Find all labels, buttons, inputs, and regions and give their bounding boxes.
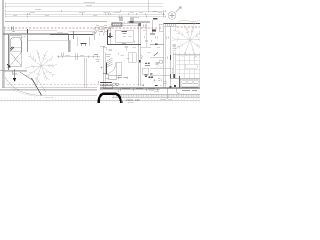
pipe hook x176.5 (177, 89, 180, 94)
rooflight text block (122, 32, 128, 34)
counter line y68.5 (150, 68, 171, 70)
couch cushions (182, 80, 187, 83)
interior wall pair x138.5-141 (138, 26, 140, 86)
scattered plus ticks (106, 36, 152, 54)
void X box diagonal 1 (10, 52, 22, 66)
garden curve main (5, 77, 98, 96)
diagonal door leaf (154, 53, 159, 57)
entry cluster extra marks (94, 27, 112, 33)
boundary blob (130, 21, 134, 23)
dark stub on x27.5 (27, 29, 29, 34)
right rooms: vertical x152.5 (152, 20, 154, 33)
dark wall left of couch (179, 76, 181, 88)
ramp down arrow stem (14, 69, 16, 78)
void box bottom line (10, 65, 22, 67)
counter diag hatch (156, 66, 163, 68)
dimension line row 5 (6, 16, 166, 18)
heavy black arc (99, 94, 122, 104)
lightwell wall pair x84.5/86 (84, 58, 86, 88)
porch plus marks (99, 81, 113, 88)
porch circles (113, 83, 116, 86)
door blob (155, 43, 157, 45)
stair hall: wall pair x103/105 (102, 46, 104, 88)
parking stall outline (10, 36, 22, 66)
entry wall vertical x95 (94, 31, 96, 40)
dim line lower right y89.5 (100, 89, 160, 91)
line y31 mid (69, 30, 96, 32)
bath dark marks (144, 75, 147, 77)
road line y90.7 (0, 90, 97, 92)
site boundary dark line y87.8 (100, 87, 200, 89)
horizontal line y40 (28, 39, 69, 41)
bottom text squiggles (126, 91, 197, 103)
dim tick below garage front (12, 71, 14, 74)
garage dark wall line (3, 33, 69, 35)
shelf line y57.5 (150, 57, 164, 59)
steps dim text (118, 77, 128, 79)
wc marks (156, 63, 160, 65)
pink dashed setback line top (4, 27, 200, 28)
survey circle symbol (168, 7, 181, 19)
boundary dark line y21.5 (5, 21, 107, 23)
left boundary vertical line (2, 0, 4, 88)
wall x170.5 with dark segments (170, 26, 172, 88)
dimension text squiggles (13, 2, 162, 18)
bath fixture tiny dark rects (148, 76, 150, 78)
top wall window rect 1 (112, 23, 122, 26)
small label dark (153, 18, 158, 20)
top wall ticks above (124, 21, 130, 23)
fence posts (114, 94, 199, 97)
pink small marks right (160, 84, 166, 86)
void X box diagonal 2 (10, 52, 22, 66)
small arc bracket (141, 55, 142, 58)
car body (11, 38, 21, 52)
stair dark bottom corner (103, 73, 107, 75)
terrace wall lines (173, 52, 175, 78)
terrace top edge (173, 53, 200, 55)
garage horizontal line (3, 30, 57, 32)
entry squiggle text (92, 31, 103, 34)
road line y100.7 full (0, 100, 200, 102)
lower wall y75 right (150, 74, 171, 76)
shaft room rect (77, 37, 89, 47)
car windshield line (11, 47, 21, 51)
dim text above garage wall (57, 32, 63, 34)
top boundary wall dark right (177, 23, 200, 25)
porch dark bars (100, 82, 112, 84)
scattered room dimension labels (104, 31, 161, 59)
main room inner rooflight rect (115, 30, 133, 42)
garage left wall vertical (8, 34, 10, 70)
entry dark vertical x107.5 (107, 30, 109, 46)
main room outline (110, 26, 112, 45)
basement dim line y56.5 (57, 56, 100, 58)
steps ticks bottom band (1, 97, 199, 102)
delta marks (145, 62, 150, 64)
corner arrow dark (7, 64, 10, 67)
terrace grid (177, 53, 201, 79)
right tree (172, 22, 208, 60)
terrace label box (185, 64, 197, 69)
double closet rects (128, 53, 136, 63)
top wall window mullions (114, 23, 120, 26)
rooflight center marks (123, 36, 126, 38)
road line y89.3 (0, 88, 97, 90)
door dark dash on pink line (155, 84, 157, 86)
steps small rects above arc (105, 74, 109, 78)
bath rect lower (142, 68, 149, 74)
table symbol (81, 43, 87, 45)
wc circle (159, 60, 162, 63)
terrace bottom edge (171, 77, 200, 79)
top wall window rect 2 (122, 24, 138, 26)
door swing arc (107, 63, 116, 74)
stair dark edge (106, 63, 108, 75)
entry cluster ticks (93, 25, 107, 36)
top wall window band with mullions (164, 24, 178, 27)
column symbol a (119, 18, 123, 21)
wall vertical x68.5 (68, 34, 70, 40)
bottom left text (149, 89, 154, 91)
dark wall y44.5 right (150, 44, 164, 46)
dim marks right rooms (156, 37, 173, 74)
dark wall y34.5 mid (50, 34, 93, 36)
wavy garden line top right (178, 21, 200, 22)
vertical x73.5 (73, 31, 75, 39)
dark floor line y44.5 (108, 44, 141, 46)
car dark mark (11, 47, 15, 51)
pink line crosshair (12, 26, 15, 31)
ramp diagonal light (20, 72, 33, 81)
boundary dark line right segment (128, 21, 150, 23)
marks near x95-100 (96, 55, 112, 69)
fence band shade (112, 94, 200, 97)
text stack right wall (173, 45, 177, 50)
dimension line row 1 (6, 3, 164, 5)
road line y87.7 left (2, 87, 97, 89)
dimension line row 3 (6, 10, 166, 12)
ramp down arrow head (13, 78, 16, 82)
grid line vertical at x164 (163, 10, 165, 18)
column symbol b (130, 18, 134, 21)
dim mark beside stall (21, 36, 26, 38)
entry cluster small rects (95, 26, 108, 31)
dim squiggle text basement (65, 54, 98, 57)
dark blob label (152, 30, 156, 32)
wall end blob (169, 86, 171, 88)
ramp diagonal dark (32, 78, 42, 95)
dimension line row 2 (6, 6, 164, 8)
ramp diagonal second (37, 78, 47, 92)
stair flight hatch (107, 58, 113, 67)
mid vertical wall x27.5 (27, 29, 29, 52)
small text left curb (45, 97, 54, 99)
couch outline (180, 79, 199, 87)
small marks above right fence (154, 91, 159, 93)
dark red survey square (174, 85, 176, 87)
dark stub left of it (150, 73, 152, 75)
left boundary inner vertical line (4, 26, 6, 88)
hall marks right of room (144, 25, 146, 28)
fence rails (112, 93, 200, 95)
dimension line row 4 (6, 13, 166, 15)
top wall dark jamb (138, 23, 141, 26)
pink line end cross (142, 84, 144, 86)
room label dark dash (150, 33, 155, 35)
garage front double line (0, 69, 27, 71)
couch seat (182, 84, 199, 87)
door leaf dark bottom (118, 76, 121, 78)
wall pair x163.5/165.5 (163, 26, 165, 88)
dim text lower right (103, 88, 155, 90)
bath fixture marks (153, 79, 166, 83)
grid line vertical at x148.5 (148, 0, 150, 13)
left tree (25, 49, 57, 83)
small room rect (159, 24, 164, 31)
gray wall band (68, 40, 71, 52)
garden curve secondary (3, 80, 37, 97)
pink dashed line lower (7, 84, 143, 86)
text below garage front (12, 73, 18, 75)
dark jamb segment (139, 60, 141, 62)
dimension tick marks (6, 3, 166, 18)
dark T symbol (109, 33, 111, 38)
door leaf rect (116, 62, 121, 76)
pipe vertical x167.5 (167, 89, 169, 100)
